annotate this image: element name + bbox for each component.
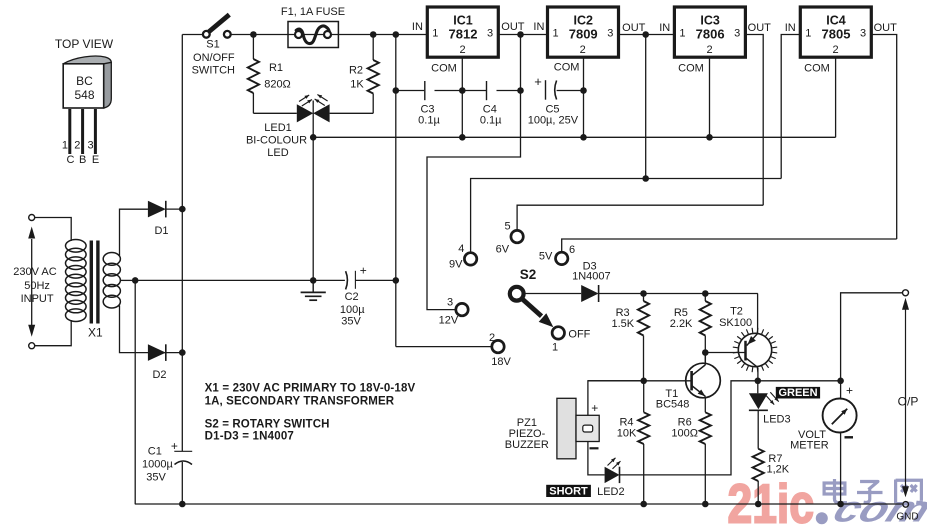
- svg-text:OUT: OUT: [748, 22, 772, 34]
- transformer X1 secondary winding: [103, 253, 120, 266]
- junction R4 bottom: [640, 501, 647, 508]
- svg-text:SK100: SK100: [719, 317, 752, 329]
- svg-text:21ic: 21ic: [728, 472, 815, 527]
- junction 18V line top: [393, 31, 400, 38]
- svg-text:100Ω: 100Ω: [671, 427, 698, 439]
- svg-text:548: 548: [74, 88, 94, 102]
- wire T1 base to buzzer plus: [588, 381, 644, 416]
- svg-text:F1, 1A FUSE: F1, 1A FUSE: [281, 6, 345, 18]
- svg-text:7805: 7805: [822, 27, 851, 42]
- svg-text:IN: IN: [412, 21, 423, 33]
- wire 18V vertical line: [395, 35, 397, 347]
- svg-text:GREEN: GREEN: [778, 387, 817, 399]
- junction meter top: [837, 378, 844, 385]
- diode D1: [120, 208, 148, 210]
- wire input bottom to primary: [35, 320, 71, 346]
- junction 12V takeoff: [517, 31, 524, 38]
- svg-text:100µ: 100µ: [340, 304, 365, 316]
- svg-text:230V AC: 230V AC: [13, 266, 56, 278]
- resistor R5: [700, 301, 711, 336]
- wire LED1 node down to centre tap: [312, 137, 314, 280]
- wire IC3 OUT bend: [745, 35, 763, 206]
- svg-text:C4: C4: [483, 103, 497, 115]
- svg-text:10K: 10K: [617, 427, 637, 439]
- wire IC4 COM pin to ground rail: [835, 57, 837, 137]
- svg-text:3: 3: [607, 27, 613, 39]
- wire bottom ground rail: [135, 503, 903, 505]
- svg-text:IN: IN: [659, 22, 670, 34]
- input voltage arrow: [31, 239, 33, 325]
- svg-text:1N4007: 1N4007: [572, 271, 611, 283]
- diode D2: [148, 344, 166, 361]
- wire secondary top to D1: [118, 209, 148, 255]
- svg-text:S1: S1: [206, 39, 219, 51]
- resistor R3: [638, 301, 649, 336]
- rotary switch contact 3 12V: [456, 303, 468, 315]
- svg-text:C: C: [67, 154, 75, 166]
- wire IC4 IN bend: [781, 35, 800, 179]
- diode D3 1N4007: [581, 285, 598, 302]
- resistor R2: [372, 35, 374, 61]
- transistor T2 SK100: [738, 333, 771, 366]
- svg-text:2: 2: [707, 44, 713, 56]
- regulator IC3 7806: [674, 7, 745, 57]
- svg-text:C3: C3: [420, 103, 434, 115]
- wire 12V line to contact 3: [427, 35, 521, 310]
- svg-text:ON/OFF: ON/OFF: [193, 52, 235, 64]
- wire centre tap to C2: [135, 279, 345, 281]
- svg-text:COM: COM: [678, 62, 704, 74]
- wire collector node to meter node: [758, 380, 841, 382]
- wire COM ground rail: [313, 136, 835, 138]
- resistor R6: [700, 412, 711, 444]
- led LED3: [757, 381, 759, 394]
- svg-text:INPUT: INPUT: [21, 293, 54, 305]
- svg-text:2: 2: [489, 332, 495, 344]
- svg-text:1.5K: 1.5K: [611, 318, 634, 330]
- svg-text:50Hz: 50Hz: [24, 280, 50, 292]
- svg-text:35V: 35V: [146, 472, 166, 484]
- svg-text:LED3: LED3: [763, 414, 791, 426]
- svg-text:1,2K: 1,2K: [767, 464, 790, 476]
- transformer X1 primary winding: [66, 240, 87, 253]
- wire T1 base line: [588, 380, 692, 382]
- svg-text:COM: COM: [554, 62, 580, 74]
- rotary switch contact 4 9V: [464, 253, 476, 265]
- watermark chinese char dian: [833, 479, 836, 499]
- junction 9V rail: [642, 175, 649, 182]
- wire S1 to IC1 IN rail: [231, 34, 428, 36]
- wire IC3 COM pin to ground rail: [709, 57, 711, 137]
- wire 6V rail to contact 5: [517, 205, 763, 231]
- watermark chinese char zi: [860, 482, 878, 490]
- op-amp regulator IC1 7812: [427, 7, 498, 57]
- junction R3-R4-T1 base: [640, 378, 647, 385]
- capacitor C2: [346, 271, 348, 289]
- output terminal O/P: [903, 290, 909, 296]
- label SHORT: [546, 485, 591, 497]
- output voltage arrow: [902, 298, 909, 310]
- svg-text:+: +: [360, 264, 367, 278]
- junction T2 collector LED3: [755, 378, 762, 385]
- rotary switch contact 2 18V: [492, 340, 504, 352]
- wire LED2 to short node: [620, 381, 758, 475]
- node centre tap junction: [132, 277, 139, 284]
- junction IC2 COM on ground rail: [580, 134, 587, 141]
- svg-text:BI-COLOUR: BI-COLOUR: [246, 135, 307, 147]
- svg-text:2: 2: [580, 44, 586, 56]
- svg-text:1: 1: [552, 342, 558, 354]
- svg-text:6V: 6V: [496, 243, 510, 255]
- junction R2 top: [370, 31, 377, 38]
- svg-text:+: +: [534, 74, 542, 89]
- svg-text:7806: 7806: [696, 27, 725, 42]
- svg-text:3: 3: [860, 27, 866, 39]
- svg-text:TOP VIEW: TOP VIEW: [55, 37, 114, 51]
- svg-text:C5: C5: [545, 103, 559, 115]
- wire secondary centre tap: [120, 279, 135, 281]
- svg-text:+: +: [591, 401, 598, 415]
- terminal GND: [903, 502, 909, 508]
- junction 9V takeoff: [642, 31, 649, 38]
- watermark dot com: [816, 512, 828, 524]
- svg-text:OUT: OUT: [501, 21, 525, 33]
- junction C4-C5 at 12V line: [517, 87, 524, 94]
- rotary switch contact 1 OFF: [552, 327, 564, 339]
- junction LED1 on COM rail: [310, 134, 317, 141]
- svg-text:0.1µ: 0.1µ: [418, 115, 440, 127]
- svg-text:IN: IN: [785, 22, 796, 34]
- svg-text:E: E: [92, 154, 99, 166]
- svg-text:18V: 18V: [491, 356, 511, 368]
- svg-text:SHORT: SHORT: [549, 486, 588, 498]
- transistor T1 BC548: [686, 363, 721, 398]
- svg-text:7809: 7809: [569, 27, 598, 42]
- label GREEN: [776, 387, 820, 399]
- svg-text:D1-D3 = 1N4007: D1-D3 = 1N4007: [205, 431, 294, 443]
- svg-text:S2: S2: [520, 267, 537, 282]
- wire R1 to LED1: [253, 112, 296, 114]
- svg-text:BC548: BC548: [656, 398, 690, 410]
- svg-text:X1 = 230V AC PRIMARY TO 18V-0: X1 = 230V AC PRIMARY TO 18V-0-18V: [205, 382, 416, 394]
- wire IC2 COM pin to ground rail: [583, 57, 585, 137]
- svg-text:O/P: O/P: [898, 395, 919, 409]
- junction meter bottom on ground rail: [837, 501, 844, 508]
- svg-text:5: 5: [505, 221, 511, 233]
- wire IC1 OUT to IC2 IN: [498, 34, 547, 36]
- svg-text:X1: X1: [88, 326, 103, 340]
- junction 18V at C3: [393, 87, 400, 94]
- wire D3 to R3 node: [599, 293, 644, 295]
- wire R5 node to T2 emitter: [705, 293, 758, 295]
- svg-text:T2: T2: [730, 306, 743, 318]
- svg-text:OUT: OUT: [874, 22, 898, 34]
- svg-text:7812: 7812: [449, 27, 478, 42]
- wire LED1 to R2: [330, 112, 374, 114]
- wire IC1 COM pin to ground rail: [461, 57, 463, 137]
- svg-text:LED1: LED1: [264, 122, 292, 134]
- fuse F1: [288, 22, 338, 48]
- regulator IC2 7809: [548, 7, 619, 57]
- junction IC1 COM on ground rail: [459, 134, 466, 141]
- svg-text:D2: D2: [152, 369, 166, 381]
- svg-text:LED: LED: [267, 147, 288, 159]
- wire buzzer minus to LED2: [588, 442, 605, 475]
- svg-text:SWITCH: SWITCH: [192, 65, 235, 77]
- BC548 pin 1 lead: [68, 109, 71, 154]
- svg-text:2: 2: [74, 140, 80, 152]
- rotary switch contact 5 6V: [511, 230, 523, 242]
- BC548 pin 2 lead: [81, 109, 84, 154]
- wire centre tap to ground rail down: [134, 280, 136, 504]
- svg-text:C2: C2: [345, 291, 359, 303]
- wire R3 node to R5 node: [644, 293, 706, 295]
- transformer X1 core: [90, 241, 93, 324]
- wire 5V rail to contact 6: [562, 239, 897, 253]
- junction D1 cathode: [179, 206, 186, 213]
- svg-text:1: 1: [432, 27, 438, 39]
- svg-text:GND: GND: [896, 512, 918, 523]
- junction C3-C4 at IC1 COM: [459, 87, 466, 94]
- wire IC2 OUT to IC3 IN: [619, 34, 675, 36]
- wire IC4 OUT bend: [871, 35, 896, 240]
- svg-text:OFF: OFF: [568, 329, 590, 341]
- input terminal top: [29, 215, 35, 221]
- svg-text:BUZZER: BUZZER: [505, 439, 549, 451]
- wire secondary bottom to D2: [118, 306, 166, 353]
- junction ground symbol node: [310, 277, 317, 284]
- svg-text:820Ω: 820Ω: [264, 78, 291, 90]
- capacitor C4: [462, 90, 486, 92]
- svg-text:1K: 1K: [350, 79, 364, 91]
- led LED2: [605, 467, 620, 483]
- piezo buzzer PZ1: [557, 398, 576, 459]
- wire 9V line from IC2 OUT: [645, 35, 647, 179]
- junction D2 cathode: [179, 349, 186, 356]
- rotary switch S2 rotor arm: [522, 299, 542, 317]
- junction C1 on ground rail: [179, 501, 186, 508]
- resistor R7: [753, 449, 764, 481]
- rotary switch contact 6 5V: [556, 252, 568, 264]
- BC548 pin 3 lead: [94, 109, 97, 154]
- volt meter: [840, 381, 842, 400]
- wire input top to primary: [35, 218, 71, 242]
- led LED1 bi-colour: [297, 104, 313, 122]
- resistor R4: [638, 412, 649, 444]
- wire left DC bus vertical: [181, 35, 183, 452]
- svg-text:3: 3: [87, 140, 93, 152]
- svg-text:2.2K: 2.2K: [670, 318, 693, 330]
- junction R1 top: [250, 31, 257, 38]
- led LED1 emission arrows: [299, 95, 309, 102]
- svg-text:9V: 9V: [449, 259, 463, 271]
- svg-text:R2: R2: [349, 64, 363, 76]
- junction R6 bottom: [702, 501, 709, 508]
- svg-text:LED2: LED2: [597, 486, 625, 498]
- capacitor C1: [174, 450, 192, 452]
- wire R5 node to T2 base: [705, 352, 744, 354]
- junction R7 bottom: [755, 501, 762, 508]
- svg-text:3: 3: [447, 297, 453, 309]
- svg-text:2: 2: [832, 44, 838, 56]
- regulator IC4 7805: [800, 7, 871, 57]
- wire T1 emitter to R6: [704, 396, 706, 412]
- wire 18V to contact 2: [396, 346, 492, 348]
- svg-text:3: 3: [734, 27, 740, 39]
- svg-text:12V: 12V: [439, 314, 459, 326]
- watermark chinese char wang: [894, 480, 897, 504]
- wire 9V rail to contact 4: [471, 179, 782, 254]
- resistor R1: [252, 35, 254, 60]
- capacitor C3: [424, 81, 426, 100]
- junction R5 top: [702, 290, 709, 297]
- svg-text:R1: R1: [269, 62, 283, 74]
- svg-text:D1: D1: [154, 225, 168, 237]
- svg-text:COM: COM: [431, 62, 457, 74]
- rotary switch S2 pole: [510, 287, 524, 301]
- svg-text:1A, SECONDARY TRANSFORMER: 1A, SECONDARY TRANSFORMER: [205, 396, 395, 408]
- junction T2 base node: [702, 349, 709, 356]
- svg-text:COM: COM: [804, 62, 830, 74]
- svg-text:0.1µ: 0.1µ: [480, 115, 502, 127]
- svg-text:+: +: [171, 439, 178, 453]
- led LED2 emission arrows: [608, 458, 616, 466]
- junction R3 top: [640, 290, 647, 297]
- led LED3 emission arrows: [766, 395, 774, 404]
- svg-text:1: 1: [62, 140, 68, 152]
- svg-text:1: 1: [679, 27, 685, 39]
- svg-text:4: 4: [458, 243, 464, 255]
- transistor package BC548 pictorial body: [63, 56, 111, 64]
- svg-text:1000µ: 1000µ: [142, 459, 173, 471]
- junction C5 at IC2 COM: [580, 87, 587, 94]
- svg-text:METER: METER: [790, 439, 829, 451]
- svg-text:BC: BC: [76, 74, 93, 88]
- svg-text:S2 = ROTARY SWITCH: S2 = ROTARY SWITCH: [205, 419, 330, 431]
- svg-text:+: +: [846, 383, 853, 397]
- wire S2 pole to D3: [523, 293, 581, 295]
- switch S1: [208, 15, 229, 33]
- svg-text:2: 2: [459, 44, 465, 56]
- svg-text:100µ, 25V: 100µ, 25V: [528, 115, 579, 127]
- svg-text:B: B: [79, 154, 86, 166]
- svg-text:6: 6: [569, 244, 575, 256]
- svg-text:IN: IN: [533, 21, 544, 33]
- svg-text:3: 3: [487, 27, 493, 39]
- wire meter node to O/P terminal: [841, 293, 903, 381]
- ground symbol: [312, 280, 314, 291]
- junction C2 plus on 18V line: [393, 277, 400, 284]
- junction IC3 COM on ground rail: [706, 134, 713, 141]
- input terminal bottom: [29, 343, 35, 349]
- svg-text:C1: C1: [148, 446, 162, 458]
- svg-text:1: 1: [552, 27, 558, 39]
- svg-text:OUT: OUT: [622, 22, 646, 34]
- wire 18V node to C3: [396, 90, 424, 92]
- svg-text:35V: 35V: [341, 316, 361, 328]
- wire bus to S1: [182, 34, 203, 36]
- svg-text:1: 1: [805, 27, 811, 39]
- svg-text:5V: 5V: [539, 250, 553, 262]
